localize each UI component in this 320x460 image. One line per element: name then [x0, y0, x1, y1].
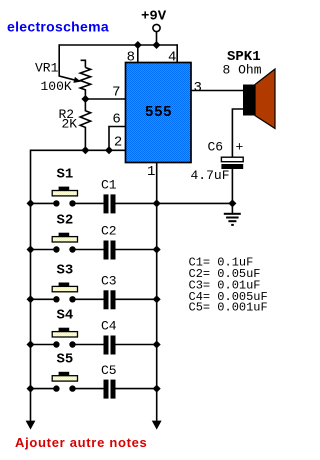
svg-text:1: 1 [147, 164, 155, 180]
svg-text:C3: C3 [101, 274, 117, 289]
node right rail junction row 1 [153, 199, 161, 207]
pin 4 label [168, 50, 176, 66]
wire switch S4 to capacitor C4 [76, 344, 104, 346]
node junction R2 bottom on pin2/6 rail [81, 146, 89, 154]
wire switch S2 to capacitor C2 [76, 249, 104, 251]
svg-text:100K: 100K [41, 79, 72, 94]
pin 7 label [112, 84, 120, 100]
label SPK1 [227, 49, 261, 65]
wire capacitor C4 to right rail [116, 344, 157, 346]
wire switch S5 to capacitor C5 [76, 388, 104, 390]
node left rail junction row 2 [27, 246, 35, 254]
label 100K [41, 79, 72, 94]
switch S4 pushbutton [52, 328, 77, 348]
wire left rail [30, 203, 32, 421]
label C4 [101, 319, 117, 334]
svg-text:S2: S2 [57, 213, 74, 229]
node junction on rail at +9V [153, 41, 161, 49]
value table C1-C5 [189, 256, 268, 315]
label R2 [59, 107, 75, 122]
wire pin 4 drop [176, 44, 178, 62]
capacitor C6 top plate [221, 157, 243, 162]
wire top supply rail [59, 44, 177, 46]
label C1 [101, 178, 117, 193]
svg-text:4.7uF: 4.7uF [191, 168, 230, 183]
node right rail junction row 2 [153, 246, 161, 254]
node right rail junction row 5 [153, 385, 161, 393]
wire capacitor C2 to right rail [116, 249, 157, 251]
resistor R2 zigzag [80, 99, 90, 150]
svg-text:555: 555 [145, 105, 172, 121]
label S4 [57, 308, 74, 324]
switch S2 pushbutton [52, 233, 77, 253]
wire capacitor C1 to right rail [116, 202, 157, 204]
wire row 2 left segment [31, 249, 54, 251]
node ground junction [228, 199, 236, 207]
wire pin 2 / pin 6 rail [31, 150, 126, 203]
svg-text:7: 7 [112, 84, 120, 100]
node right rail junction row 3 [153, 295, 161, 303]
svg-text:+: + [236, 140, 244, 155]
power +9V terminal circle [153, 24, 160, 31]
pin 2 label [114, 135, 122, 151]
svg-text:Ajouter autre notes: Ajouter autre notes [15, 435, 147, 450]
capacitor C6 bottom plate [221, 164, 243, 169]
svg-text:2K: 2K [62, 116, 78, 131]
wire pin 6 link [109, 127, 126, 151]
svg-text:C5= 0.001uF: C5= 0.001uF [189, 301, 268, 315]
node right rail junction row 4 [153, 341, 161, 349]
svg-text:+9V: +9V [141, 9, 167, 25]
wire switch S1 to capacitor C1 [76, 202, 104, 204]
svg-text:3: 3 [194, 80, 202, 96]
node left rail junction row 3 [27, 295, 35, 303]
capacitor C4 [104, 336, 116, 355]
right rail bottom arrowhead [152, 421, 162, 430]
svg-text:4: 4 [168, 50, 176, 66]
ground symbol [224, 203, 241, 226]
wire capacitor C3 to right rail [116, 298, 157, 300]
svg-text:C1: C1 [101, 178, 117, 193]
svg-text:C5: C5 [101, 363, 117, 378]
capacitor C5 [104, 380, 116, 399]
switch S1 pushbutton [52, 187, 77, 207]
node junction VR1/R2/pin7 [81, 95, 89, 103]
wire pin 8 drop [137, 45, 139, 63]
svg-text:electroschema: electroschema [7, 19, 109, 35]
pin 1 label [147, 164, 155, 180]
wire row 1 left segment [31, 202, 54, 204]
wire pin 3 to speaker [191, 90, 243, 92]
power +9V label [141, 9, 167, 25]
svg-text:C2: C2 [101, 224, 117, 239]
switch S5 pushbutton [52, 372, 77, 392]
wire VR1 wiper feed from rail [59, 44, 75, 80]
pin 3 label [194, 80, 202, 96]
left rail bottom arrowhead [26, 421, 36, 430]
pin 6 label [112, 112, 120, 128]
node junction pin6 link [105, 146, 113, 154]
svg-text:VR1: VR1 [35, 61, 59, 76]
node left rail junction row 4 [27, 341, 35, 349]
node junction on rail at pin8 [134, 41, 142, 49]
wire pin 1 / right rail [156, 163, 158, 421]
label C2 [101, 224, 117, 239]
label C5 [101, 363, 117, 378]
label S1 [57, 166, 74, 182]
potentiometer VR1 resistor zigzag [80, 68, 90, 100]
label 8 Ohm [223, 62, 262, 77]
label 4.7uF [191, 168, 230, 183]
label S5 [57, 352, 74, 368]
wire +9V terminal to top rail [156, 32, 158, 45]
svg-text:S5: S5 [57, 352, 74, 368]
label C6 [208, 139, 224, 154]
wire speaker return to C6 [232, 109, 243, 157]
svg-text:S3: S3 [57, 262, 74, 278]
capacitor C1 [104, 194, 116, 213]
wire row 4 left segment [31, 344, 54, 346]
VR1 wiper arrowhead [73, 77, 81, 83]
svg-text:C4: C4 [101, 319, 117, 334]
node left rail junction row 1 [27, 199, 35, 207]
wire C6 to ground node [231, 169, 233, 203]
svg-text:6: 6 [112, 112, 120, 128]
switch S3 pushbutton [52, 283, 77, 303]
capacitor C3 [104, 290, 116, 309]
label VR1 [35, 61, 59, 76]
svg-text:8: 8 [127, 50, 135, 66]
pin 8 label [127, 50, 135, 66]
title electroschema [7, 19, 109, 35]
label C3 [101, 274, 117, 289]
wire row 5 left segment [31, 388, 54, 390]
svg-text:2: 2 [114, 135, 122, 151]
svg-text:S4: S4 [57, 308, 74, 324]
wire switch S3 to capacitor C3 [76, 298, 104, 300]
label 2K [62, 116, 78, 131]
capacitor C2 [104, 241, 116, 260]
svg-text:8 Ohm: 8 Ohm [223, 62, 262, 77]
op-amp/IC U1 555 timer body [126, 63, 192, 163]
speaker SPK1 magnet [243, 85, 255, 116]
wire row1 to ground node [157, 202, 233, 204]
potentiometer VR1 top stub [81, 60, 86, 67]
label S3 [57, 262, 74, 278]
speaker SPK1 cone [255, 69, 275, 129]
node left rail junction row 5 [27, 385, 35, 393]
wire node to pin 7 [85, 98, 125, 100]
label C6 plus [236, 140, 244, 155]
svg-text:C6: C6 [208, 139, 224, 154]
wire row 3 left segment [31, 298, 54, 300]
label S2 [57, 213, 74, 229]
note Ajouter autre notes [15, 435, 147, 450]
svg-text:S1: S1 [57, 166, 74, 182]
wire capacitor C5 to right rail [116, 388, 157, 390]
